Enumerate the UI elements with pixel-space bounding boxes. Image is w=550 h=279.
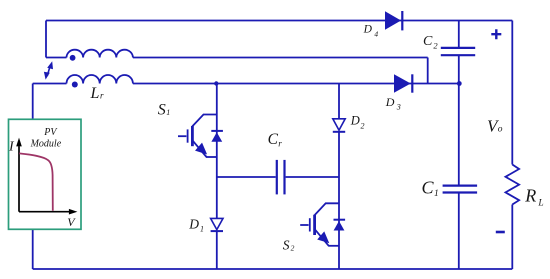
svg-text:4: 4	[374, 29, 378, 38]
svg-text:1: 1	[166, 108, 170, 117]
svg-text:D: D	[363, 24, 373, 36]
svg-text:D: D	[350, 114, 360, 128]
svg-text:Module: Module	[30, 138, 62, 149]
svg-text:R: R	[524, 186, 536, 206]
svg-text:PV: PV	[43, 127, 58, 138]
svg-text:L: L	[90, 85, 100, 102]
svg-text:C: C	[423, 34, 433, 49]
svg-text:2: 2	[433, 40, 438, 50]
svg-text:D: D	[188, 217, 199, 232]
svg-text:S: S	[158, 101, 166, 118]
svg-text:3: 3	[396, 102, 401, 111]
svg-text:D: D	[385, 95, 395, 109]
svg-text:C: C	[422, 177, 435, 197]
svg-text:r: r	[278, 138, 282, 148]
svg-text:r: r	[100, 90, 104, 100]
svg-text:1: 1	[200, 224, 204, 233]
svg-text:S: S	[283, 238, 290, 253]
svg-text:2: 2	[291, 244, 295, 253]
svg-text:C: C	[268, 131, 279, 148]
svg-text:1: 1	[434, 189, 439, 199]
svg-text:o: o	[498, 125, 503, 135]
svg-text:L: L	[537, 199, 543, 209]
svg-text:2: 2	[361, 121, 365, 130]
